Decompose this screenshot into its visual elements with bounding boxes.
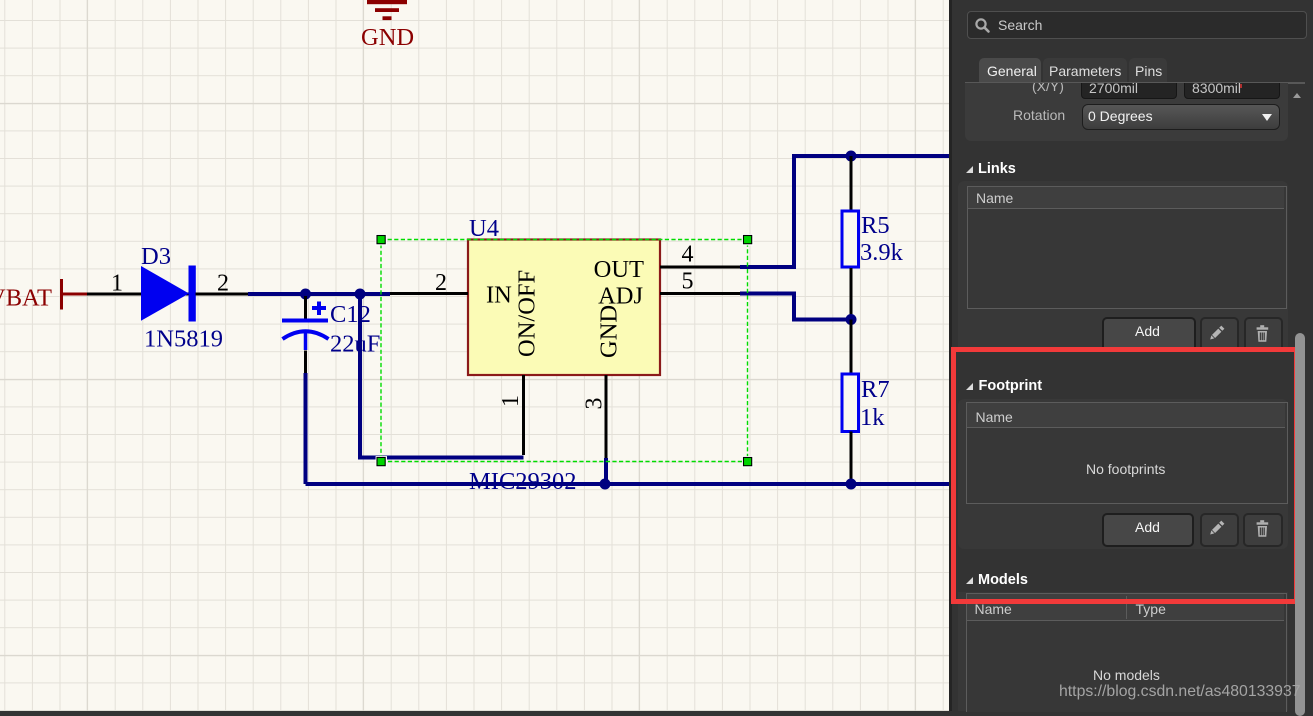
Models section [958,592,1288,711]
svg-text:3.9k: 3.9k [860,239,904,266]
field X 2700mil [1081,72,1177,99]
label Rotation [1013,107,1065,123]
svg-text:1: 1 [111,271,123,297]
capacitor C12 [282,296,329,373]
wire D3 pin2 black stub [196,293,249,296]
tab Pins [1129,58,1167,84]
svg-text:ON/OFF: ON/OFF [514,270,541,357]
wire OUT pin4 up to top rail [740,156,950,267]
field Y 8300mil [1184,72,1280,99]
wire ON/OFF branch: down and right to U4 pin1 [360,294,524,458]
svg-text:5: 5 [682,269,694,295]
junction top rail / R5 [846,151,857,162]
wire R5 to mid node [850,268,853,320]
svg-text:GND: GND [596,305,623,358]
pin 5 of U4 [660,292,740,295]
svg-text:OUT: OUT [594,256,644,283]
wire C12 bottom to ground rail (navy) [304,373,308,484]
svg-text:4: 4 [682,242,694,268]
port VBAT [0,279,88,312]
wire mid node to R7 pin [850,320,853,375]
junction at C12 top [300,289,311,300]
Links buttons [1102,317,1196,352]
svg-text:C12: C12 [330,301,371,328]
scrollbar up arrow [1293,93,1301,98]
svg-text:MIC29302: MIC29302 [469,468,577,495]
svg-text:22uF: 22uF [330,331,380,358]
pin 4 of U4 [660,266,740,269]
svg-text:3: 3 [582,398,608,410]
svg-text:1N5819: 1N5819 [144,326,223,353]
svg-text:R5: R5 [861,212,890,239]
wire R7 to bottom rail [850,432,853,485]
svg-text:U4: U4 [469,215,499,242]
svg-text:R7: R7 [861,376,890,403]
svg-text:D3: D3 [141,243,171,270]
svg-text:VBAT: VBAT [0,285,52,312]
ground GND power symbol [367,0,407,20]
junction pin3/rail [600,479,611,490]
svg-text:1k: 1k [860,404,885,431]
tab General (active) [979,58,1042,84]
Footprint section [958,399,1288,549]
pin 1 of U4 [522,375,525,455]
dropdown 0 Degrees [1082,104,1280,130]
tab Parameters [1043,58,1127,84]
svg-text:IN: IN [486,282,512,309]
schematic canvas [0,0,950,711]
svg-text:2: 2 [435,270,447,296]
resistor R7 [842,374,859,432]
wire main horizontal net (navy) [248,292,390,296]
junction at ON/OFF branch [355,289,366,300]
line under tabs [965,82,1305,84]
Links section [958,181,1288,352]
resistor R5 [842,211,859,267]
watermark [1059,683,1301,701]
diode D3 [141,266,196,322]
pin 3 of U4 [605,375,608,458]
svg-text:1: 1 [498,395,524,407]
pin 2 of U4 [390,292,468,295]
scrollbar thumb [1295,333,1305,716]
Footprint buttons [1102,513,1194,547]
label (X/Y) clipped [1032,78,1132,94]
wire bottom ground rail [306,482,951,486]
wire VBAT to D3 pin1 (black pin) [87,293,190,296]
General content box (clipped) [965,83,1288,141]
component U4 body MIC29302 [468,240,660,376]
junction bottom rail / R7 [846,479,857,490]
svg-text:GND: GND [361,24,414,51]
wire top rail to R5 pin [850,156,853,211]
major grid lines [0,0,950,711]
right properties panel [949,0,1313,711]
red annotation rectangle [951,347,1299,604]
selection box around U4 [376,234,754,467]
junction mid divider [846,314,857,325]
wire ADJ pin5 to divider mid node [740,294,851,320]
wire pin3 to rail [604,458,608,484]
search box [967,11,1307,39]
